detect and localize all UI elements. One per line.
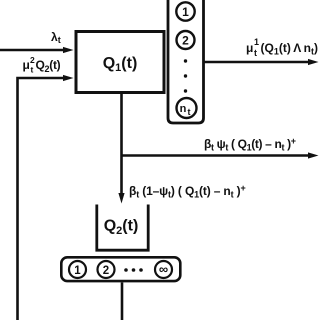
svg-text:1: 1 (254, 37, 259, 47)
svg-text:μ: μ (23, 58, 30, 72)
server 2 (177, 31, 195, 49)
vertical ellipsis dots (184, 59, 187, 92)
svg-text:∞: ∞ (159, 261, 168, 276)
service output arrow mu^1_t (Q1(t) ^ n_t) (205, 59, 319, 65)
feedback arrow from infinite server pool (mu^2_t Q2(t)) (18, 75, 74, 320)
label mu^1_t (Q1(t) AND n_t) (246, 37, 318, 58)
queue box Q1(t) (76, 32, 164, 93)
svg-text:2: 2 (30, 55, 35, 65)
pool server infinity (155, 261, 172, 278)
server n_t (177, 98, 197, 118)
label beta_t (1-psi_t) ( Q1(t) - n_t )+ (129, 183, 246, 200)
svg-text:1: 1 (182, 5, 189, 19)
infinite server pool (61, 257, 180, 281)
svg-text:n: n (180, 103, 187, 115)
wire from pool to bottom (121, 283, 124, 320)
pool server 2 (98, 261, 115, 278)
label beta_t psi_t ( Q1(t) - n_t )+ (204, 136, 296, 153)
svg-text:2: 2 (182, 33, 189, 47)
svg-text:t: t (31, 65, 34, 75)
queue bucket Q2(t) (97, 205, 148, 251)
abandonment arrow beta_t psi_t (Q1(t)-n_t)^+ (122, 152, 319, 158)
svg-text:t: t (254, 48, 257, 58)
server 1 (176, 2, 194, 20)
svg-text:μ: μ (246, 41, 253, 55)
server column (n_t servers) (168, 0, 204, 123)
pool server 1 (69, 261, 86, 278)
svg-text:βt (1–ψt) ( Q1(t) – nt )+: βt (1–ψt) ( Q1(t) – nt )+ (129, 183, 246, 200)
svg-text:(Q1(t) Λ nt): (Q1(t) Λ nt) (261, 41, 319, 57)
arrival arrow lambda_t (0, 47, 74, 53)
horizontal ellipsis dots (124, 268, 143, 272)
wire from Q1 down (abandonment split) (118, 93, 124, 204)
svg-text:1: 1 (74, 265, 81, 277)
svg-text:t: t (188, 107, 191, 117)
svg-text:2: 2 (103, 265, 109, 277)
